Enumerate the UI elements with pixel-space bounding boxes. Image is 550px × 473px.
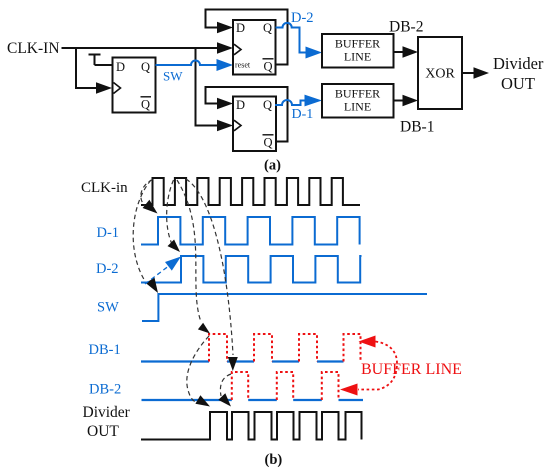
svg-text:LINE: LINE [344,100,371,114]
wire D-1 from U3 Q to buffer B2 (blue, hop at x=287.5) [275,100,307,105]
waveform DB-2 blue baseline segments [142,399,364,401]
annotation arrow C3: CLK edge1 to SW rise [133,180,151,281]
svg-text:BUFFER: BUFFER [335,87,380,101]
wire CLK drop to U3 clock [196,48,220,126]
svg-text:D: D [236,98,245,112]
svg-text:LINE: LINE [344,50,371,64]
wire CLK-IN main [62,47,220,49]
arrow SW into U2 reset (blue) [217,59,234,71]
wire U3 feedback Qbar to D [206,87,288,142]
svg-text:SW: SW [163,69,183,84]
arrow into U2 D [217,22,233,34]
annotation arrow C5: D-1 rise to DB-1 first rise (buffer delay) [177,180,201,322]
svg-text:DB-1: DB-1 [89,342,121,358]
arrow into U2 clock [217,42,233,54]
XOR gate U4 box [418,37,462,109]
annotation arrow C8: DB-2 rise to Divider OUT rise2 [220,374,231,396]
svg-text:Q: Q [263,98,272,112]
waveform D-2 [141,256,362,283]
svg-text:D-1: D-1 [97,225,120,241]
svg-text:Q: Q [141,98,150,112]
wire CLK-IN drop to U1 clock [76,48,98,88]
U3 clock triangle [234,120,241,131]
waveform CLK-in [141,178,360,205]
svg-text:Q: Q [264,136,273,150]
arrow into U1 clock [96,82,112,94]
svg-text:BUFFER: BUFFER [335,37,380,51]
wire tie-high bar for U1 D [89,55,113,66]
svg-text:(a): (a) [264,158,281,174]
svg-text:XOR: XOR [425,67,455,82]
svg-text:D-2: D-2 [96,261,119,277]
U1 clock triangle [114,83,121,94]
svg-text:D-1: D-1 [292,107,314,122]
svg-text:Q: Q [263,21,272,35]
flip-flop U3 box [233,97,276,152]
buffer line B1 box [322,34,394,68]
svg-text:Divider: Divider [83,404,131,421]
waveform DB-1 blue baseline segments [141,360,344,362]
svg-text:CLK-in: CLK-in [81,180,128,196]
annotation arrow A3 (blue dashed): SW to D-2 rise [145,265,170,284]
svg-text:DB-2: DB-2 [89,382,121,398]
svg-text:DB-1: DB-1 [400,119,434,136]
svg-text:BUFFER LINE: BUFFER LINE [361,361,462,378]
arrow into U3 D [217,98,233,110]
arrow Divider OUT [474,67,490,79]
wire XOR output [462,72,475,74]
arrow into U3 clock [217,120,233,132]
svg-text:Divider: Divider [493,54,544,73]
arrow D-1 into buffer B2 (blue) [305,95,323,107]
waveform DB-1 red delayed pulses [209,334,361,362]
svg-text:D-2: D-2 [291,10,314,26]
flip-flop U2 box [233,20,276,75]
U2 clock triangle [234,44,241,55]
wire SW from U1 Q to U2 reset (blue, hop at x=195.5) [156,61,219,66]
buffer line B2 box [322,84,394,118]
svg-text:DB-2: DB-2 [389,19,423,36]
svg-text:OUT: OUT [501,74,535,93]
annotation arrow C1: CLK edge1 to D-1 rise [141,180,153,207]
waveform DB-2 red delayed pulses [232,372,339,400]
annotation red arrow R1 at DB-2 [340,384,358,396]
annotation arrow C6: D-2 rise to DB-2 first rise (buffer delay) [186,179,233,355]
annotation red dashed loop R2 to R1 [358,342,397,390]
arrow D-2 into buffer B1 (blue) [306,47,323,59]
flip-flop U1 box [113,58,156,113]
waveform SW [142,294,427,321]
svg-text:Q: Q [264,60,273,74]
annotation arrow C2: CLK edge2 to D-2 rise [167,180,174,243]
annotation arrow C7: DB-1 rise to Divider OUT rise1 [187,336,209,402]
wire B2 to XOR [394,100,405,102]
waveform Divider OUT [141,412,362,440]
svg-text:D: D [116,60,125,74]
svg-text:CLK-IN: CLK-IN [7,40,60,57]
svg-text:(b): (b) [265,452,283,468]
waveform D-1 [141,217,360,245]
svg-text:Q: Q [141,60,150,74]
svg-text:reset: reset [235,61,251,70]
arrow into XOR top input [403,46,419,58]
wire D-2 from U2 Q to buffer B1 (blue, hop at x=287.5) [276,23,308,53]
annotation red arrow R2 at DB-1 [359,336,376,348]
wire B1 to XOR [394,51,405,53]
arrow into XOR bottom input [403,95,419,107]
svg-text:SW: SW [97,300,119,316]
svg-text:D: D [236,21,245,35]
svg-text:OUT: OUT [87,423,119,440]
wire U2 feedback Qbar to D [206,10,288,65]
